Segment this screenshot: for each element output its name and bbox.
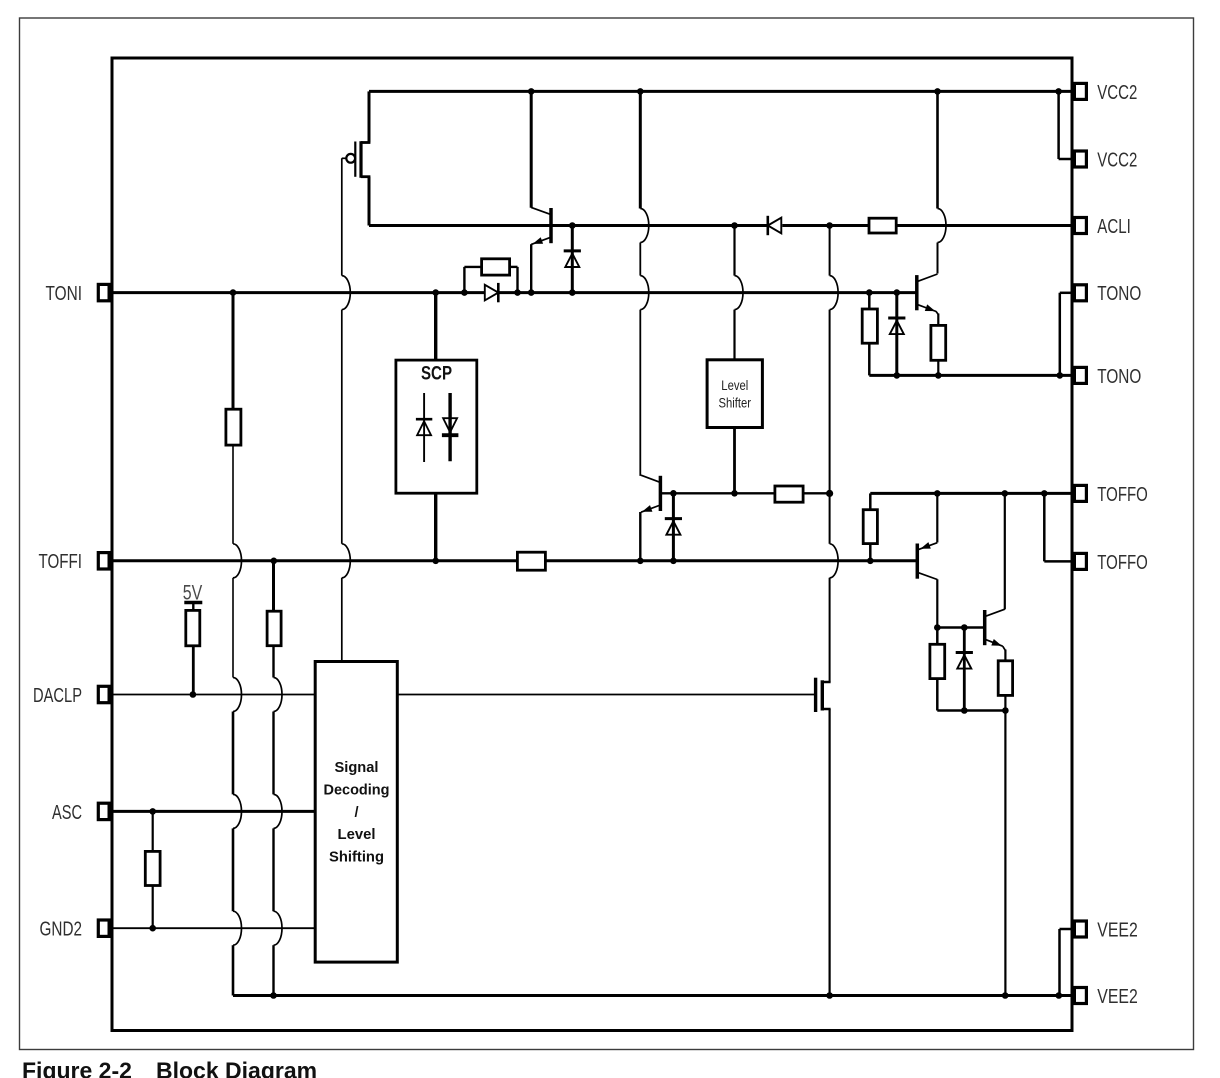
wire Q5 emitter to R13 [1004,650,1006,661]
wire R5 to TONO line [937,360,939,375]
diode D4 [888,317,905,320]
svg-text:SCP: SCP [421,364,452,385]
junction TOFFO at Q5 collector [1002,490,1009,497]
wire R12 leads [936,628,939,645]
wire TONO pin bracket [1060,292,1074,295]
junction ACLI at long drop [826,222,833,229]
pin VCC2 second [1074,151,1086,167]
wire VCC2 pin bracket [1057,91,1060,159]
junction TONO at bracket [1057,372,1064,379]
wire Q3 collector from bus [936,91,939,208]
svg-text:DACLP: DACLP [33,684,82,707]
wire bottom node to VEE2 [1004,711,1006,996]
junction node at long drop [826,490,833,497]
resistor R11 [145,851,160,885]
svg-text:VEE2: VEE2 [1097,918,1138,941]
svg-text:Shifting: Shifting [329,850,384,866]
wire ACLI line left [369,224,769,227]
pin ASC [98,803,109,819]
junction TONI at column A [230,289,237,296]
pin VEE2 bottom [1074,988,1086,1004]
transistor M1 (PMOS) [361,141,370,144]
transistor Q4 (PNP) [916,544,920,579]
junction node at level shifter [731,490,738,497]
wire bottom node line [937,709,1005,712]
wire 5V stub [192,603,194,611]
junction on bus at Q1 collector [528,88,535,95]
wire TONO line [869,374,1074,377]
pin TOFFI [98,553,109,569]
resistor R13 [998,661,1012,696]
pin ACLI [1074,218,1086,234]
wire DACLP line right [397,694,815,696]
wire M1 drain to ACLI line [368,177,371,226]
wire node line right [803,492,830,494]
junction TOFFI at SCP [432,558,439,565]
pin VCC2 top [1074,83,1086,99]
junction TONI at D2 [569,289,576,296]
wire column A mid [232,445,234,544]
svg-text:/: / [354,805,358,821]
diode SCP left [423,393,425,462]
junction TONI at D4 [894,289,901,296]
wire bypass loop [463,267,465,293]
wire R9 to DACLP [192,646,195,695]
junction lower node at D6 [961,624,968,631]
wire long drop to NMOS drain [829,493,831,543]
wire GND2 line [111,927,315,929]
junction TONO at D4 [894,372,901,379]
wire DACLP line left [111,694,315,696]
wire column B upper [272,561,275,611]
diode D1 on TONI line [485,285,499,301]
junction node at D5 [670,490,677,497]
resistor R5 [931,325,946,360]
wire lower node line [937,626,984,629]
diode D6 [956,651,973,654]
wire R4 to TONO line [868,343,871,375]
wire ACLI to level shifter [733,226,735,276]
wire M2 source to VEE2 [828,709,830,996]
wire Q2 base node line [660,492,775,494]
wire column A upper [232,293,235,410]
junction bottom node at R13 [1002,707,1009,714]
power rail 5V bar [184,601,202,604]
resistor R6 on TOFFI [517,552,545,570]
block SCP box [396,360,477,493]
junction bottom node at D6 [961,707,968,714]
junction TOFFI at D5 [670,558,677,565]
svg-text:ACLI: ACLI [1097,215,1131,238]
svg-text:VCC2: VCC2 [1097,148,1137,171]
svg-text:Signal: Signal [335,760,379,776]
junction TOFFI at Q2 emitter [637,558,644,565]
IC boundary box [112,58,1072,1031]
wire M1 gate drop to decoder [341,158,343,275]
junction TOFFI at R8 [867,558,874,565]
wire Q3 emitter to R5 [937,314,939,326]
wire Q1 collector to bus [530,91,533,207]
wire TONI to SCP [434,293,437,361]
transistor Q3 (NPN) [915,275,919,310]
resistor R2 on ACLI [869,218,896,233]
junction on bus at Q3 collector [934,88,941,95]
svg-text:VEE2: VEE2 [1097,985,1138,1008]
wire column A lower [232,712,235,795]
transistor Q5 (NPN) [983,610,987,645]
wire Q2 emitter to TOFFI [639,512,641,561]
svg-text:Level: Level [338,827,376,843]
resistor R9 5V pullup [186,610,200,645]
svg-text:TONI: TONI [46,282,83,305]
wire TOFFO pin bracket [1043,493,1046,561]
wire TONI to R4 [868,293,871,309]
wire ACLI long drop [829,226,831,276]
wire column B lower [272,646,274,678]
junction ASC at R11 [149,808,156,815]
wire VCC2 top bus [369,90,1074,93]
svg-text:Decoding: Decoding [324,782,390,798]
wire Q4 emitter to TOFFO [936,493,938,542]
junction ACLI at D2 [569,222,576,229]
junction TOFFO at Q4 emitter [934,490,941,497]
junction ACLI at level-shifter drop [731,222,738,229]
pin TOFFO top [1074,485,1086,501]
resistor R8 [863,510,877,544]
junction VEE2 at Q5 column [1002,992,1009,999]
junction VEE2 bus at column B [270,992,277,999]
junction GND2 at R11 [149,925,156,932]
svg-text:TOFFO: TOFFO [1097,551,1148,574]
wire VEE2 pin bracket [1060,928,1075,931]
resistor R10 column B [267,611,281,646]
svg-text:VCC2: VCC2 [1097,81,1137,104]
wire TOFFO corner to R8 [869,493,872,509]
junction VEE2 at bracket [1056,992,1063,999]
wire D2 column [571,226,574,293]
wire D5 column [672,493,675,561]
pin VEE2 top [1074,921,1086,937]
diode D5 [665,517,682,520]
transistor M2 (NMOS) [814,678,817,712]
diode D3 on ACLI line [768,218,782,234]
svg-text:TONO: TONO [1097,365,1141,388]
wire TOFFI line [111,559,917,562]
wire TONI line right [498,291,917,294]
wire R8 to TOFFI [869,544,872,561]
pin GND2 [98,920,109,936]
pin TONI [98,284,109,300]
junction on bus at Q2 drop [637,88,644,95]
wire M1 gate stub [342,157,347,159]
wire R11 to GND2 [152,886,154,929]
junction TOFFO at bracket [1041,490,1048,497]
junction DACLP at 5V pullup [190,691,197,698]
resistor R1 bypass [482,259,510,275]
junction TOFFI at column B [271,558,278,565]
junction on bus at VCC2 bracket [1055,88,1062,95]
wire ASC line [111,810,315,813]
pin TOFFO second [1074,553,1086,569]
svg-text:GND2: GND2 [40,918,83,941]
pin TONO top [1074,285,1086,301]
pin TONO second [1074,367,1086,383]
wire ASC to R11 [152,811,154,851]
junction TONI at R4 [866,289,873,296]
wire D4 column [895,293,898,376]
resistor R3 column A [226,409,241,445]
wire TONI line left [111,291,485,294]
resistor R12 [930,644,945,678]
wire D6 column [963,628,966,711]
wire Q4 collector down [936,579,938,627]
wire SCP to TOFFI [434,493,437,561]
pin DACLP [98,686,109,702]
wire ACLI line mid [782,224,869,227]
svg-text:Figure 2-2: Figure 2-2 [22,1057,132,1078]
svg-text:Shifter: Shifter [719,396,752,411]
svg-text:ASC: ASC [52,801,82,824]
svg-text:5V: 5V [183,580,203,604]
wire Q5 collector to TOFFO [1004,493,1006,609]
junction TONI at SCP [432,289,439,296]
block Level Shifter box [707,360,762,428]
transistor Q2 (NPN) [659,476,663,511]
junction TONO at R5 [935,372,942,379]
diode D2 ACLI-TONI [564,249,581,252]
svg-text:Level: Level [721,378,748,393]
block Signal Decoding box [315,662,397,963]
wire bus drop to Q2 [639,91,642,208]
resistor R4 [862,309,877,343]
resistor R7 node line [775,486,803,502]
junction TONI at bypass right [514,289,521,296]
junction TONI at bypass left [461,289,468,296]
junction VEE2 at NMOS source [826,992,833,999]
svg-text:Block Diagram: Block Diagram [156,1057,317,1078]
svg-text:TOFFO: TOFFO [1097,483,1148,506]
wire R13 to bottom node [1004,695,1006,710]
wire TOFFO line [870,492,1074,495]
svg-text:TOFFI: TOFFI [39,550,83,573]
wire Q1 emitter to TONI [530,244,532,292]
wire ACLI line right [896,224,1074,227]
junction TONI at Q1 emitter [528,289,535,296]
svg-text:TONO: TONO [1097,282,1141,305]
transistor Q1 (NPN) [549,208,553,243]
junction lower node at R12 [934,624,941,631]
diode SCP right [448,393,451,461]
wire level shifter to node [733,428,736,494]
wire VEE2 bus [233,994,1074,997]
wire bus left drop upper [368,91,371,142]
